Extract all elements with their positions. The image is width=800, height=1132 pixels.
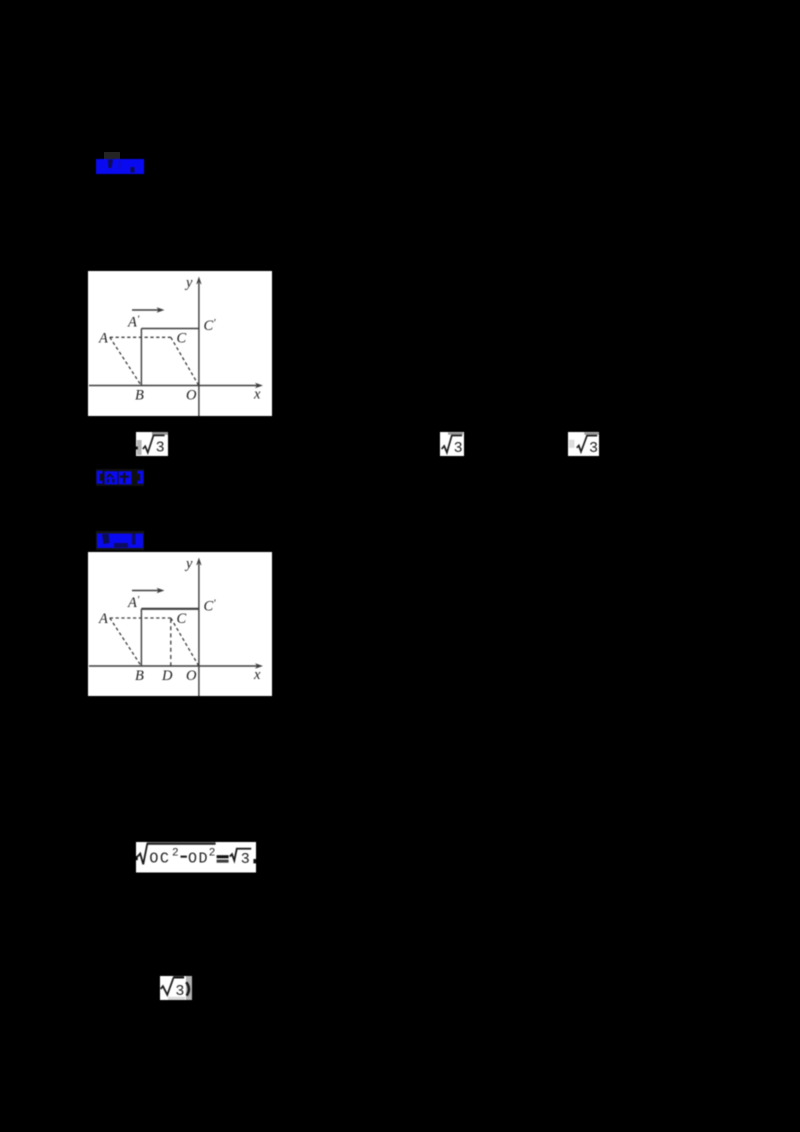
svg-text:2: 2	[172, 848, 179, 860]
sqrt3 box 2	[440, 432, 464, 456]
radical over OC^2-OD^2	[147, 842, 216, 843]
rectangle A'BOC' solid sides	[141, 329, 199, 386]
translation arrow	[132, 307, 165, 312]
svg-text:A: A	[98, 611, 108, 627]
svg-text:O: O	[186, 668, 197, 684]
blue tag 2 (analysis)	[96, 469, 144, 486]
svg-text:O: O	[186, 388, 197, 404]
dashed parallelogram ABOC	[110, 337, 199, 385]
svg-text:D: D	[161, 668, 173, 684]
minus	[181, 856, 187, 858]
dashed parallelogram ABOC	[110, 618, 199, 666]
sqrt3 box 3	[568, 432, 599, 456]
last sqrt3 box	[160, 976, 192, 1000]
sqrt3 box 1	[136, 432, 168, 456]
svg-text:C: C	[177, 611, 187, 627]
dashed altitude CD	[170, 619, 172, 666]
svg-text:x: x	[253, 387, 261, 403]
dark gray box above answer tag	[104, 152, 120, 160]
closing paren glyph	[186, 982, 189, 995]
y-axis	[196, 277, 201, 417]
radical sign 3	[577, 436, 597, 452]
svg-text:3: 3	[175, 982, 184, 999]
svg-text:x: x	[253, 667, 261, 683]
translation arrow	[132, 588, 165, 593]
blue tag 1 (answer)	[96, 159, 144, 174]
svg-text:3: 3	[589, 440, 598, 456]
diagram 1 box	[88, 271, 272, 416]
x-axis	[89, 663, 263, 668]
svg-text:OC: OC	[149, 851, 170, 868]
big formula box sqrt(OC^2-OD^2)=sqrt3	[136, 842, 256, 873]
bold equals	[217, 855, 229, 858]
svg-text:OD: OD	[188, 851, 209, 868]
diagram 2 box	[88, 552, 272, 696]
svg-text:3: 3	[241, 851, 250, 868]
svg-text:C: C	[177, 331, 187, 347]
y-axis	[196, 558, 201, 697]
blue tag 3 (solution)	[96, 531, 144, 550]
radical sign 2	[442, 436, 462, 453]
rectangle A'BOC' solid sides (top bold)	[141, 609, 199, 666]
trailing period	[253, 859, 256, 863]
radical sign 4	[161, 977, 174, 994]
svg-text:y: y	[184, 275, 193, 291]
sqrt 3	[230, 849, 251, 861]
svg-text:A: A	[98, 331, 108, 347]
svg-text:3: 3	[156, 440, 165, 456]
svg-text:B: B	[135, 668, 144, 684]
svg-text:B: B	[135, 388, 144, 404]
svg-text:y: y	[184, 556, 193, 572]
svg-text:2: 2	[209, 848, 216, 860]
svg-text:3: 3	[454, 440, 463, 456]
radical sign 1	[143, 435, 165, 452]
x-axis	[89, 383, 263, 388]
